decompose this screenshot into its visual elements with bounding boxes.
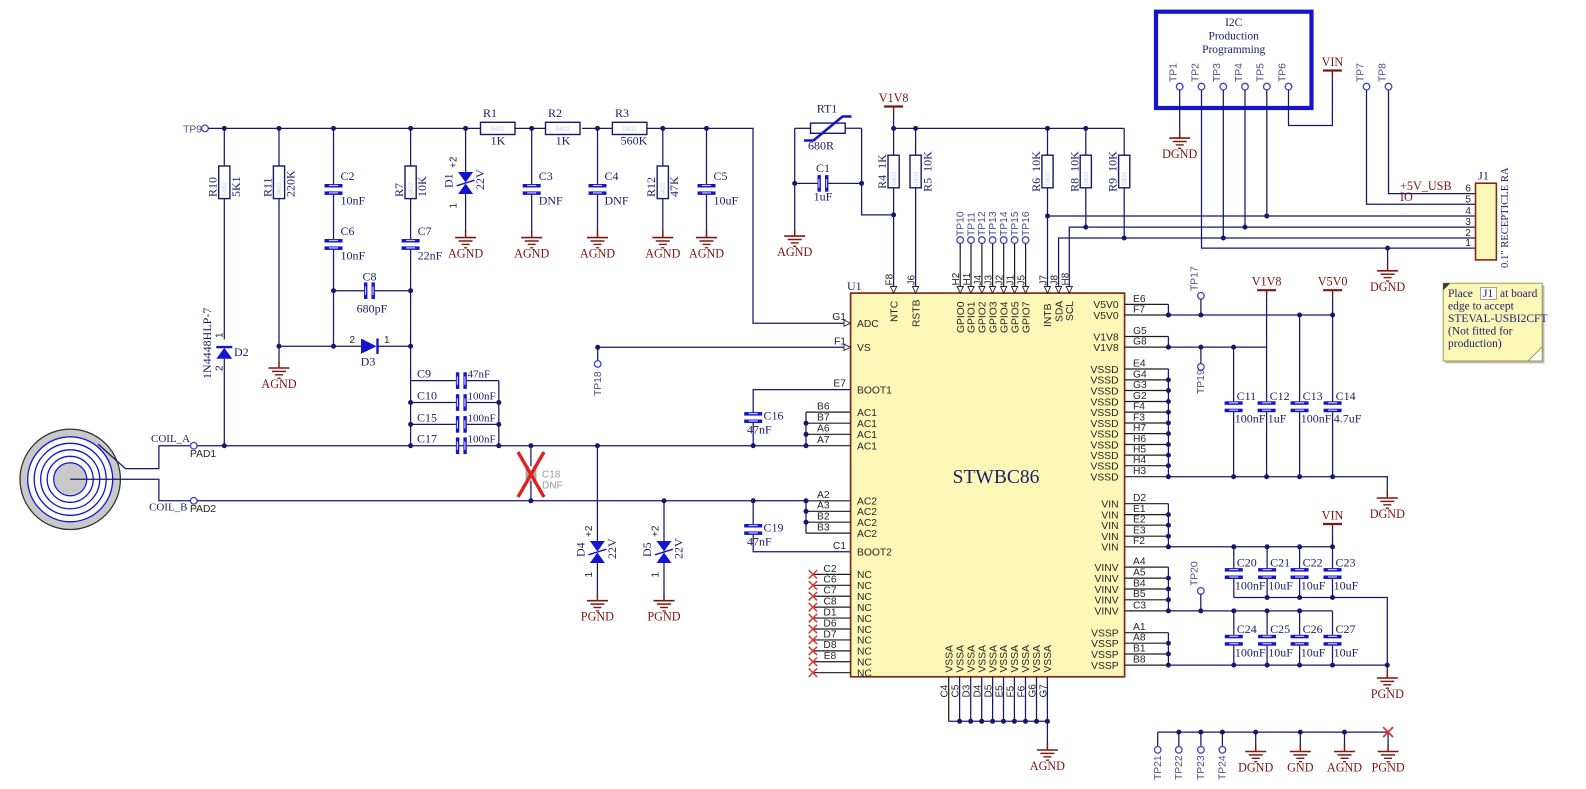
svg-text:10uF: 10uF: [1268, 646, 1293, 660]
wire TP2 to J1 pin1: [1202, 90, 1476, 248]
junction dots C1: [792, 181, 797, 186]
svg-text:VSSP: VSSP: [1091, 650, 1119, 661]
svg-text:F5: F5: [1005, 685, 1016, 697]
svg-text:NC: NC: [857, 603, 872, 614]
svg-text:Programming: Programming: [1202, 44, 1265, 56]
svg-text:H7: H7: [1133, 423, 1146, 434]
wire COIL_B to PAD2: [70, 479, 190, 501]
svg-text:AGND: AGND: [1030, 759, 1065, 773]
svg-text:10uF: 10uF: [1334, 579, 1359, 593]
svg-text:5: 5: [1465, 194, 1471, 205]
wire bottom TP rail: [1158, 731, 1388, 733]
capacitor C27 10uF: [1324, 611, 1359, 665]
svg-text:VSSD: VSSD: [1091, 473, 1119, 484]
svg-text:AC2: AC2: [857, 507, 877, 518]
svg-text:E2: E2: [1133, 515, 1146, 526]
svg-text:680R: 680R: [808, 139, 834, 153]
pins AC2 A2 A3 B2 B3: [806, 490, 877, 540]
svg-text:R12: R12: [644, 177, 658, 197]
svg-text:VSSD: VSSD: [1091, 365, 1119, 376]
wire V5V0 rail F7: [1168, 314, 1332, 316]
svg-text:0402: 0402: [408, 182, 415, 197]
wire INTB to J1 pin4: [1048, 215, 1476, 217]
svg-text:D5: D5: [984, 684, 995, 697]
resistor R12 47K: [644, 128, 681, 231]
svg-text:H3: H3: [1133, 466, 1146, 477]
pins VSSA C4..G7 to AGND bus: [940, 645, 1054, 724]
svg-text:1: 1: [215, 332, 226, 338]
svg-text:NC: NC: [857, 668, 872, 679]
wire TP6 to VIN: [1289, 77, 1333, 126]
junction dots V1V8 rail: [1166, 345, 1236, 350]
svg-text:R10: R10: [206, 177, 220, 197]
svg-text:AGND: AGND: [514, 247, 549, 261]
pins VINV A4..C3: [1095, 557, 1171, 618]
pin G1 ADC: [832, 312, 879, 330]
svg-text:G4: G4: [1133, 369, 1147, 380]
svg-text:1: 1: [651, 572, 662, 578]
svg-text:VSSA: VSSA: [1010, 645, 1021, 673]
svg-text:C18: C18: [542, 470, 561, 481]
junction dots AC1 rail: [222, 443, 756, 448]
svg-text:C9: C9: [417, 367, 431, 381]
svg-text:C25: C25: [1270, 622, 1290, 636]
node TP4: [1234, 63, 1248, 227]
svg-text:J4: J4: [973, 275, 984, 286]
svg-text:J1: J1: [1478, 169, 1489, 183]
svg-text:10uF: 10uF: [1301, 579, 1326, 593]
svg-text:C1: C1: [833, 541, 846, 552]
ground AGND bottom row: [1327, 732, 1362, 774]
capacitor C11 100nF: [1225, 347, 1266, 477]
svg-text:STWBC86: STWBC86: [953, 467, 1040, 488]
svg-text:C12: C12: [1270, 389, 1290, 403]
resistor R7 10K: [392, 128, 429, 239]
svg-text:J6: J6: [907, 275, 918, 286]
svg-text:R4 1K: R4 1K: [875, 154, 889, 189]
svg-text:22V: 22V: [605, 538, 619, 559]
svg-text:R5 10K: R5 10K: [921, 151, 935, 192]
node TP7: [1355, 63, 1369, 90]
svg-text:D5: D5: [640, 542, 654, 557]
capacitor C8 680pF: [334, 270, 411, 316]
svg-text:AGND: AGND: [1327, 761, 1362, 775]
capacitor C6 10nF: [325, 224, 366, 346]
svg-text:D1: D1: [442, 173, 456, 188]
svg-text:VS: VS: [857, 343, 871, 354]
wire AC2 rail PAD2 to IC: [197, 500, 806, 502]
ground DGND right: [1370, 491, 1405, 521]
wire VSSD drain rail to DGND: [1168, 477, 1387, 492]
junction dots AC2 pin bus: [804, 498, 809, 524]
svg-text:47nF: 47nF: [468, 369, 491, 381]
junction dots VSSP rail: [1231, 663, 1390, 668]
svg-text:C17: C17: [417, 432, 437, 446]
svg-text:C2: C2: [341, 169, 355, 183]
svg-text:+2: +2: [584, 525, 595, 537]
svg-text:C13: C13: [1303, 389, 1323, 403]
svg-text:0402: 0402: [1045, 171, 1052, 186]
svg-text:+5V_USB: +5V_USB: [1400, 179, 1452, 193]
node TP5: [1256, 63, 1271, 216]
svg-text:VSSA: VSSA: [955, 645, 966, 673]
svg-text:TP17: TP17: [1190, 266, 1201, 291]
svg-text:G2: G2: [1133, 391, 1147, 402]
svg-text:1K: 1K: [491, 134, 506, 148]
svg-text:C4: C4: [940, 684, 951, 697]
wire VSSP rail B8 to PGND: [1168, 665, 1387, 672]
node TP1: [1169, 63, 1183, 131]
svg-text:V1V8: V1V8: [1093, 332, 1118, 343]
resistor R1 1K: [481, 106, 516, 147]
svg-text:AGND: AGND: [261, 377, 296, 391]
wire TP8 to J1 pin6 +5V_USB: [1389, 90, 1476, 194]
red X over C18: [518, 452, 544, 497]
pins V1V8 G5 G8: [1093, 326, 1171, 354]
svg-text:C7: C7: [418, 224, 432, 238]
capacitor C4 DNF: [589, 128, 629, 231]
svg-text:GPIO0: GPIO0: [956, 301, 967, 333]
svg-text:J1: J1: [1006, 275, 1017, 286]
wire C20-C23 drain rail to PGND corner: [1234, 598, 1388, 666]
svg-text:680pF: 680pF: [357, 302, 388, 316]
pins AC1 B6 B7 A6 A7: [806, 402, 877, 453]
svg-text:J8: J8: [1050, 275, 1061, 286]
svg-text:VSSP: VSSP: [1091, 661, 1119, 672]
svg-text:D7: D7: [823, 629, 836, 640]
wire RT1 left branch down to C1/AGND: [794, 128, 796, 230]
svg-text:GPIO4: GPIO4: [999, 301, 1010, 333]
ground AGND under VSSA bus: [1030, 743, 1065, 773]
svg-text:B2: B2: [817, 512, 830, 523]
node TP9: [202, 125, 209, 132]
svg-text:VSSD: VSSD: [1091, 440, 1119, 451]
svg-text:PGND: PGND: [581, 610, 614, 624]
svg-text:A6: A6: [817, 424, 830, 435]
capacitor C12 1uF: [1258, 347, 1290, 477]
svg-text:RT1: RT1: [817, 102, 838, 116]
svg-text:10K: 10K: [415, 176, 429, 197]
svg-text:TP9: TP9: [183, 124, 202, 135]
pin J7 INTB: [1039, 275, 1055, 328]
svg-text:10uF: 10uF: [1334, 646, 1359, 660]
svg-text:NC: NC: [857, 647, 872, 658]
ground GND bottom row: [1287, 732, 1314, 774]
svg-text:C21: C21: [1270, 556, 1290, 570]
svg-text:TP10: TP10: [956, 211, 967, 236]
svg-text:COIL_B: COIL_B: [149, 501, 188, 513]
resistor R10 5K1: [206, 128, 244, 339]
pin stub A7: [806, 445, 851, 447]
svg-text:TP15: TP15: [1010, 211, 1021, 236]
ground AGND under C4: [580, 231, 615, 261]
junction dots V1V8 rail: [891, 126, 896, 131]
svg-text:A1: A1: [1133, 622, 1146, 633]
diode D3: [279, 335, 411, 369]
power VIN mid: [1322, 509, 1344, 531]
svg-text:F7: F7: [1133, 304, 1145, 315]
svg-text:G6: G6: [1028, 684, 1039, 698]
svg-text:4.7uF: 4.7uF: [1334, 412, 1362, 426]
ground AGND under C5: [689, 231, 724, 261]
node PAD2: [190, 498, 216, 515]
svg-text:H8: H8: [1060, 272, 1071, 285]
svg-text:VSSA: VSSA: [944, 645, 955, 673]
svg-text:100nF: 100nF: [1235, 646, 1266, 660]
svg-text:R9 10K: R9 10K: [1106, 151, 1120, 192]
svg-text:C4: C4: [605, 169, 619, 183]
svg-text:100nF: 100nF: [468, 434, 496, 446]
junction dots V5V0 rail: [1166, 313, 1335, 318]
svg-text:E3: E3: [1133, 526, 1146, 537]
svg-text:10uF: 10uF: [1301, 646, 1326, 660]
svg-text:0402: 0402: [491, 126, 506, 133]
svg-text:100nF: 100nF: [1235, 579, 1266, 593]
svg-text:E8: E8: [824, 651, 837, 662]
svg-text:DNF: DNF: [539, 194, 563, 208]
ground AGND under R11: [261, 361, 296, 391]
svg-text:AC1: AC1: [857, 419, 877, 430]
pin E7 BOOT1: [833, 379, 892, 397]
svg-text:DGND: DGND: [1162, 147, 1197, 161]
junction dots pin2 line: [1122, 236, 1127, 241]
svg-text:TP23: TP23: [1196, 755, 1207, 780]
resistor R9 10K: [1106, 128, 1130, 238]
capacitor C25 10uF: [1258, 611, 1293, 665]
svg-text:1uF: 1uF: [814, 190, 833, 204]
node TP24: [1218, 732, 1229, 780]
capacitor C18 DNF not fitted: [526, 446, 563, 501]
svg-text:DNF: DNF: [542, 481, 563, 492]
node PAD1: [190, 442, 216, 459]
svg-text:C24: C24: [1237, 622, 1257, 636]
svg-text:V1V8: V1V8: [879, 91, 909, 105]
svg-text:TP2: TP2: [1190, 63, 1201, 82]
svg-text:F4: F4: [1133, 402, 1145, 413]
svg-text:C8: C8: [823, 597, 836, 608]
svg-text:TP7: TP7: [1355, 63, 1366, 82]
svg-text:0402: 0402: [913, 171, 920, 186]
svg-text:PAD1: PAD1: [190, 449, 216, 460]
svg-text:1: 1: [584, 572, 595, 578]
svg-text:VSSP: VSSP: [1091, 629, 1119, 640]
junction dots VINV rail: [1198, 608, 1302, 613]
svg-text:VSSD: VSSD: [1091, 429, 1119, 440]
svg-text:0402: 0402: [891, 171, 898, 186]
svg-text:TP22: TP22: [1174, 755, 1185, 780]
svg-text:VINV: VINV: [1095, 574, 1119, 585]
wire TP7 to J1 pin5 IO: [1367, 90, 1476, 204]
svg-text:D2: D2: [234, 345, 249, 359]
svg-text:R8 10K: R8 10K: [1067, 151, 1081, 192]
zener D4 22V: [573, 446, 619, 594]
svg-text:TP4: TP4: [1234, 63, 1245, 82]
capacitor C3 DNF: [523, 128, 563, 231]
capacitor C2 10nF: [325, 128, 366, 239]
pin F8 NTC: [885, 273, 901, 322]
ground PGND bottom row with no-connect X: [1372, 727, 1405, 774]
resistor R6 10K: [1029, 128, 1053, 293]
resistor R11 220K: [260, 128, 297, 361]
svg-text:VSSA: VSSA: [1032, 645, 1043, 673]
capacitor C21 10uF: [1258, 547, 1293, 598]
svg-text:5K1: 5K1: [229, 176, 243, 197]
svg-text:V1V8: V1V8: [1252, 275, 1282, 289]
svg-text:6: 6: [1465, 184, 1471, 195]
capacitor C9 47nF: [411, 367, 499, 389]
svg-text:V1V8: V1V8: [1093, 343, 1118, 354]
junction dots AC2 rail: [528, 498, 755, 503]
resistor R2 1K: [546, 106, 581, 147]
svg-text:10nF: 10nF: [341, 249, 366, 263]
svg-text:100nF: 100nF: [468, 412, 496, 424]
svg-text:C6: C6: [341, 224, 355, 238]
svg-text:D4: D4: [573, 542, 587, 557]
svg-text:NC: NC: [857, 636, 872, 647]
wire V1V8 stem to rail: [893, 113, 895, 129]
capacitor C10 100nF: [411, 389, 499, 411]
svg-text:PGND: PGND: [1372, 761, 1405, 775]
svg-text:PAD2: PAD2: [190, 504, 216, 515]
svg-text:C19: C19: [764, 521, 784, 535]
svg-text:V5V0: V5V0: [1318, 275, 1348, 289]
svg-text:4: 4: [1465, 206, 1471, 217]
ground AGND under C3: [514, 231, 549, 261]
svg-text:E5: E5: [995, 685, 1006, 698]
node TP18: [593, 345, 604, 396]
svg-text:E4: E4: [1133, 358, 1146, 369]
svg-text:NC: NC: [857, 625, 872, 636]
svg-text:B1: B1: [1133, 643, 1146, 654]
power V1V8 mid: [1252, 275, 1282, 297]
ground DGND bottom row: [1238, 732, 1273, 774]
svg-text:VIN: VIN: [1101, 521, 1118, 532]
svg-text:1K: 1K: [556, 134, 571, 148]
note box Place J1 at board edge: [1443, 283, 1547, 363]
pins VSSD E4..H3: [1091, 358, 1171, 483]
svg-text:100nF: 100nF: [1301, 412, 1332, 426]
svg-text:AGND: AGND: [689, 247, 724, 261]
svg-text:2: 2: [349, 335, 355, 346]
wire VIN power stem: [1332, 530, 1334, 547]
coil antenna: [20, 429, 120, 529]
svg-text:J5: J5: [1017, 275, 1028, 286]
svg-text:0.1" RECEPTICLE RA: 0.1" RECEPTICLE RA: [1500, 167, 1511, 268]
svg-text:VINV: VINV: [1095, 607, 1119, 618]
svg-text:R11: R11: [260, 177, 274, 197]
power VIN above TP6 elbow: [1322, 55, 1344, 77]
svg-text:1uF: 1uF: [1268, 412, 1287, 426]
pins V5V0 E6 F7: [1093, 294, 1171, 322]
junction dots C2/C6 column: [331, 288, 336, 293]
svg-text:22V: 22V: [671, 538, 685, 559]
wire V1V8 rail G8: [1168, 346, 1266, 348]
junction dots top rail: [222, 126, 709, 131]
svg-text:10uF: 10uF: [714, 194, 739, 208]
wire SCL riser to J1 pin3: [1069, 227, 1475, 293]
svg-text:RSTB: RSTB: [911, 299, 922, 327]
svg-text:SDA: SDA: [1054, 301, 1065, 322]
IC U1 STWBC86 body: [847, 279, 1125, 677]
svg-text:C23: C23: [1336, 556, 1356, 570]
svg-text:Production: Production: [1208, 31, 1259, 43]
svg-text:VSSD: VSSD: [1091, 386, 1119, 397]
svg-text:C1: C1: [816, 161, 830, 175]
svg-text:D8: D8: [823, 640, 836, 651]
svg-text:C10: C10: [417, 389, 437, 403]
svg-text:C15: C15: [417, 410, 437, 424]
svg-text:D6: D6: [823, 618, 836, 629]
svg-text:VINV: VINV: [1095, 563, 1119, 574]
svg-text:E6: E6: [1133, 294, 1146, 305]
svg-text:TP14: TP14: [999, 211, 1010, 236]
svg-text:J3: J3: [984, 275, 995, 286]
svg-text:TP19: TP19: [1196, 369, 1207, 394]
svg-text:+2: +2: [449, 156, 460, 168]
svg-text:TP3: TP3: [1212, 63, 1223, 82]
ground PGND under D5: [647, 594, 680, 624]
wire COIL_A to PAD1: [98, 444, 191, 469]
wire top rail net1 TP9 to R1: [208, 127, 480, 129]
svg-text:2: 2: [215, 365, 226, 371]
junction dots AC1 pin bus: [804, 421, 809, 449]
svg-text:U1: U1: [847, 279, 862, 293]
svg-text:NC: NC: [857, 658, 872, 669]
svg-text:R6 10K: R6 10K: [1029, 151, 1043, 192]
svg-text:VIN: VIN: [1101, 532, 1118, 543]
svg-text:VINV: VINV: [1095, 596, 1119, 607]
pin H8 SCL: [1060, 272, 1076, 321]
svg-text:C16: C16: [764, 409, 784, 423]
svg-text:D2: D2: [1133, 493, 1146, 504]
svg-text:VSSD: VSSD: [1091, 408, 1119, 419]
svg-text:1: 1: [384, 335, 390, 346]
junction node R11/D3: [277, 344, 282, 349]
svg-text:C3: C3: [1133, 600, 1146, 611]
svg-text:47nF: 47nF: [747, 535, 772, 549]
ground PGND under D4: [581, 594, 614, 624]
svg-text:H4: H4: [1133, 455, 1146, 466]
capacitor C15 100nF: [411, 410, 499, 432]
junction dots R7 column: [408, 288, 413, 293]
wire AC1 pin bus: [805, 412, 807, 446]
pins VSSP A1..B8: [1091, 622, 1171, 672]
svg-text:0402: 0402: [222, 182, 229, 197]
node TP19: [1196, 347, 1207, 394]
capacitor C17 100nF on AC1 rail: [417, 432, 496, 454]
svg-text:C20: C20: [1237, 556, 1257, 570]
node TP20: [1190, 561, 1205, 611]
svg-text:R3: R3: [615, 106, 629, 120]
svg-text:I2C: I2C: [1225, 17, 1243, 29]
svg-text:J2: J2: [995, 275, 1006, 286]
svg-text:B3: B3: [817, 523, 830, 534]
svg-text:GPIO1: GPIO1: [967, 301, 978, 333]
svg-text:AC1: AC1: [857, 408, 877, 419]
svg-text:B4: B4: [1133, 578, 1146, 589]
svg-text:F2: F2: [1133, 536, 1145, 547]
svg-text:G8: G8: [1133, 337, 1147, 348]
svg-text:+2: +2: [651, 525, 662, 537]
node TP8: [1377, 63, 1391, 90]
junction dots VIN rail: [1231, 544, 1335, 549]
junction dots C20-C23 drain rail: [1265, 595, 1335, 600]
svg-text:C6: C6: [823, 575, 836, 586]
svg-text:G5: G5: [1133, 326, 1147, 337]
svg-text:SCL: SCL: [1065, 301, 1076, 321]
svg-text:VSSA: VSSA: [977, 645, 988, 673]
svg-text:0402: 0402: [276, 182, 283, 197]
